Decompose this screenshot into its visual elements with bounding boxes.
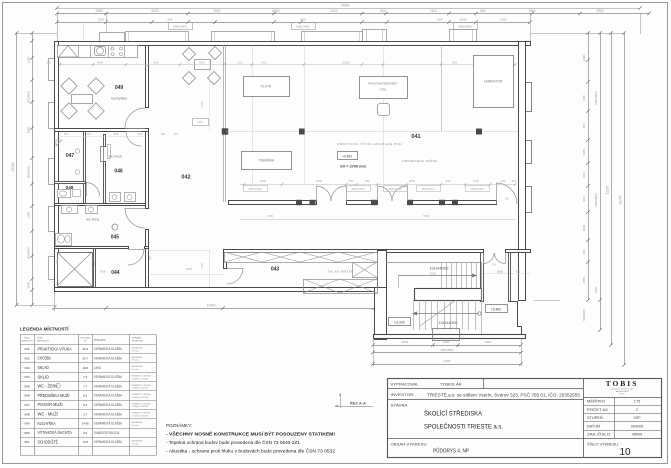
svg-text:Primalex: Primalex (132, 442, 139, 445)
svg-text:KERAMICKÝ OBKLAD: KERAMICKÝ OBKLAD (132, 393, 152, 396)
svg-text:TOBIS: TOBIS (606, 379, 639, 388)
svg-text:1400: 1400 (197, 120, 203, 124)
svg-text:1500: 1500 (98, 17, 105, 21)
svg-text:042: 042 (181, 175, 190, 181)
svg-text:049: 049 (24, 422, 29, 426)
svg-text:v.2000mm (ČSN-N): v.2000mm (ČSN-N) (132, 414, 149, 417)
svg-text:ÚPRAVA: ÚPRAVA (132, 337, 141, 340)
svg-text:09/2009: 09/2009 (631, 424, 643, 428)
svg-text:3050: 3050 (409, 179, 416, 183)
svg-text:4000: 4000 (100, 270, 107, 274)
svg-text:950: 950 (161, 132, 166, 136)
svg-text:5400: 5400 (186, 267, 193, 271)
svg-text:2950: 2950 (596, 9, 603, 13)
svg-text:600: 600 (174, 132, 179, 136)
svg-text:KERAMICKÁ DLAŽBA: KERAMICKÁ DLAŽBA (94, 439, 123, 444)
svg-text:1800(1962): 1800(1962) (470, 187, 483, 191)
svg-text:900: 900 (167, 17, 172, 21)
svg-text:900(2400): 900(2400) (296, 25, 310, 29)
svg-text:048: 048 (24, 412, 29, 416)
svg-text:m²: m² (84, 340, 87, 343)
svg-text:v.2000mm (ČSN-N): v.2000mm (ČSN-N) (132, 377, 149, 380)
svg-text:PROSKLENÁ STĚNA: PROSKLENÁ STĚNA (402, 158, 437, 163)
svg-text:900(800): 900(800) (27, 91, 31, 103)
svg-text:ÚČEL: ÚČEL (37, 337, 44, 340)
svg-text:LEGENDA MÍSTNOSTÍ: LEGENDA MÍSTNOSTÍ (20, 325, 69, 332)
svg-text:Primalex: Primalex (132, 368, 139, 371)
svg-text:PŘEDSÍŇKA MUŽI: PŘEDSÍŇKA MUŽI (38, 393, 70, 398)
svg-text:PLOTR: PLOTR (261, 85, 272, 89)
svg-text:12750: 12750 (619, 195, 623, 204)
svg-text:6000: 6000 (151, 9, 158, 13)
svg-text:63.7: 63.7 (82, 356, 88, 360)
svg-text:600: 600 (446, 179, 451, 183)
svg-text:TOBOLÁK: TOBOLÁK (440, 383, 463, 387)
svg-text:2500: 2500 (95, 9, 102, 13)
svg-text:MALBA BÍLÁ: MALBA BÍLÁ (132, 347, 144, 350)
svg-text:043: 043 (24, 366, 29, 370)
svg-text:1800(1962): 1800(1962) (248, 187, 261, 191)
svg-text:KERAMICKÁ DLAŽBA: KERAMICKÁ DLAŽBA (94, 355, 123, 360)
svg-text:MÍSTNOSTI: MÍSTNOSTI (22, 340, 33, 343)
svg-text:10.8: 10.8 (82, 366, 88, 370)
svg-text:1850: 1850 (113, 132, 119, 136)
svg-text:(3200): (3200) (342, 60, 350, 64)
svg-text:330: 330 (148, 255, 152, 260)
svg-text:2: 2 (636, 408, 638, 412)
svg-text:7.3: 7.3 (83, 375, 87, 379)
svg-text:(900): (900) (497, 270, 503, 274)
svg-text:1800(1962): 1800(1962) (388, 187, 401, 191)
svg-text:6000(900): 6000(900) (594, 193, 598, 207)
svg-text:600: 600 (380, 9, 386, 13)
svg-text:049: 049 (115, 85, 124, 91)
svg-text:SAMOSTATNÁ DOK.: SAMOSTATNÁ DOK. (94, 431, 120, 435)
svg-text:- VŠECHNY NOSNÉ KONSTRUKCE MUS: - VŠECHNY NOSNÉ KONSTRUKCE MUSÍ BÝT POSO… (166, 430, 335, 437)
svg-text:2300: 2300 (316, 179, 323, 183)
svg-text:MÍSTNOSTI: MÍSTNOSTI (37, 340, 49, 343)
svg-text:600: 600 (437, 17, 442, 21)
svg-text:v.2000mm (ČSN-N): v.2000mm (ČSN-N) (132, 387, 149, 390)
svg-text:2000: 2000 (27, 126, 31, 133)
svg-text:800: 800 (154, 60, 159, 64)
svg-text:2500: 2500 (27, 56, 31, 63)
svg-text:14.96: 14.96 (82, 422, 89, 426)
svg-text:- Akustika - ochrana proti hlu: - Akustika - ochrana proti hluku v budov… (166, 449, 336, 454)
svg-text:2430: 2430 (594, 286, 598, 293)
svg-text:TISKÁRNA: TISKÁRNA (258, 159, 275, 163)
svg-text:PISOÁR MUŽI: PISOÁR MUŽI (38, 402, 63, 407)
svg-text:14400: 14400 (207, 304, 216, 308)
svg-text:TRIESTE a.s. se sídlem Vsetín,: TRIESTE a.s. se sídlem Vsetín, Svárov 32… (427, 393, 581, 398)
svg-text:12200: 12200 (606, 185, 610, 194)
svg-text:KERAMICKÁ DLAŽBA: KERAMICKÁ DLAŽBA (94, 346, 123, 351)
svg-text:74.8: 74.8 (82, 440, 88, 444)
svg-text:24800: 24800 (341, 4, 350, 8)
svg-text:600: 600 (238, 60, 243, 64)
svg-text:ČÍSLO: ČÍSLO (24, 337, 31, 340)
svg-text:046: 046 (114, 169, 123, 175)
svg-text:600: 600 (582, 123, 586, 128)
svg-text:DSP: DSP (634, 416, 642, 420)
svg-text:KERAMICKÝ OBKLAD: KERAMICKÝ OBKLAD (132, 402, 152, 405)
svg-text:041: 041 (24, 347, 29, 351)
svg-text:500: 500 (47, 60, 52, 64)
svg-text:Primalex: Primalex (132, 424, 139, 427)
svg-text:2560: 2560 (528, 9, 535, 13)
svg-text:PODLAHA: PODLAHA (94, 339, 106, 342)
svg-text:900(800): 900(800) (27, 247, 31, 259)
svg-text:1750: 1750 (200, 262, 204, 269)
svg-text:600: 600 (453, 60, 458, 64)
svg-text:+5,460: +5,460 (491, 308, 501, 312)
svg-text:DATUM: DATUM (587, 424, 600, 428)
svg-text:047: 047 (66, 153, 75, 159)
svg-text:2500: 2500 (27, 281, 31, 288)
svg-text:OBSAH VÝKRESU: OBSAH VÝKRESU (391, 443, 427, 447)
svg-text:950: 950 (64, 132, 69, 136)
svg-text:KERAMICKÝ OBKLAD: KERAMICKÝ OBKLAD (132, 384, 152, 387)
svg-text:900(800): 900(800) (27, 166, 31, 178)
svg-text:6000: 6000 (272, 9, 279, 13)
svg-text:1800(1962): 1800(1962) (351, 187, 364, 191)
svg-text:041: 041 (411, 134, 420, 140)
svg-text:6400: 6400 (444, 359, 451, 363)
svg-text:KERAMICKÁ DLAŽBA: KERAMICKÁ DLAŽBA (94, 421, 123, 426)
svg-text:WC - MUŽI: WC - MUŽI (38, 411, 59, 416)
svg-text:2860: 2860 (485, 340, 492, 344)
svg-text:4750: 4750 (267, 214, 274, 218)
svg-text:ŘEZ A-A: ŘEZ A-A (350, 401, 366, 406)
svg-text:2630: 2630 (402, 340, 409, 344)
svg-text:600: 600 (582, 172, 586, 177)
svg-text:2160: 2160 (500, 17, 507, 21)
svg-text:KERAMICKÝ OBKLAD: KERAMICKÝ OBKLAD (132, 374, 152, 377)
svg-text:SPOLEČNOSTI TRIESTE a.s.: SPOLEČNOSTI TRIESTE a.s. (424, 422, 503, 431)
svg-text:1850: 1850 (582, 276, 586, 283)
svg-text:1:75: 1:75 (634, 400, 641, 404)
svg-text:STUPEŇ: STUPEŇ (587, 416, 603, 420)
svg-text:1750: 1750 (200, 100, 204, 107)
svg-text:12200: 12200 (11, 162, 15, 171)
svg-text:600(900): 600(900) (582, 309, 586, 321)
svg-text:MALBA BÍLÁ: MALBA BÍLÁ (132, 356, 144, 359)
svg-text:2930: 2930 (213, 9, 220, 13)
svg-text:MALBA BÍLÁ: MALBA BÍLÁ (132, 440, 144, 443)
svg-text:wc muži: wc muži (109, 155, 122, 159)
svg-text:3400: 3400 (199, 60, 206, 64)
svg-text:2800: 2800 (260, 179, 267, 183)
svg-text:1800(1962): 1800(1962) (421, 187, 434, 191)
svg-text:2000: 2000 (582, 54, 586, 61)
svg-text:39/009: 39/009 (632, 432, 642, 436)
svg-text:8.2: 8.2 (83, 394, 87, 398)
svg-text:300: 300 (512, 179, 517, 183)
svg-text:2410: 2410 (330, 9, 337, 13)
svg-text:POZNÁMKY:: POZNÁMKY: (166, 422, 192, 429)
svg-text:600: 600 (138, 132, 143, 136)
svg-text:PŮDORYS 4. NP: PŮDORYS 4. NP (433, 448, 469, 455)
svg-text:KERAMICKÁ DLAŽBA: KERAMICKÁ DLAŽBA (94, 383, 123, 388)
svg-text:600: 600 (87, 132, 92, 136)
svg-text:900(2400): 900(2400) (458, 25, 472, 29)
svg-text:kuchyňka: kuchyňka (111, 97, 126, 101)
svg-text:7600: 7600 (423, 214, 430, 218)
svg-text:900: 900 (300, 17, 305, 21)
svg-text:051: 051 (24, 440, 29, 444)
svg-text:8,5: 8,5 (505, 197, 509, 201)
svg-text:KERAMICKÁ DLAŽBA: KERAMICKÁ DLAŽBA (94, 411, 123, 416)
svg-text:7410: 7410 (429, 9, 436, 13)
svg-text:600: 600 (365, 179, 370, 183)
svg-text:POČET A4: POČET A4 (587, 407, 608, 412)
svg-text:SCHODIŠTĚ: SCHODIŠTĚ (38, 439, 59, 444)
svg-text:- Tepelná ochrana budov bude p: - Tepelná ochrana budov bude provedena d… (166, 439, 301, 445)
svg-text:LINO: LINO (94, 366, 101, 370)
svg-text:045: 045 (111, 235, 120, 241)
svg-text:4600(850): 4600(850) (440, 348, 454, 352)
svg-text:1750: 1750 (473, 179, 480, 183)
svg-text:VYPRACOVAL: VYPRACOVAL (391, 383, 419, 387)
svg-text:MALBA BÍLÁ: MALBA BÍLÁ (132, 421, 144, 424)
svg-text:KERAMICKÁ DLAŽBA: KERAMICKÁ DLAŽBA (94, 402, 123, 407)
svg-text:KERAMICKÁ DLAŽBA: KERAMICKÁ DLAŽBA (94, 393, 123, 398)
svg-text:CHODBA: CHODBA (38, 356, 52, 361)
svg-text:10: 10 (619, 447, 631, 458)
svg-text:ZAK.ČÍSLO: ZAK.ČÍSLO (587, 431, 611, 436)
svg-text:043: 043 (271, 267, 280, 273)
svg-text:400: 400 (55, 259, 59, 264)
svg-text:SKLAD: SKLAD (38, 365, 49, 370)
svg-text:PRAKTICKÁ VÝUKA APLIKACE POLÍ: PRAKTICKÁ VÝUKA APLIKACE POLÍ (337, 142, 402, 146)
svg-text:LAMINÁTOR: LAMINÁTOR (484, 80, 503, 84)
svg-text:KUCHYŇKA: KUCHYŇKA (38, 421, 56, 426)
svg-text:900: 900 (582, 196, 586, 201)
svg-text:WC - ŽENY: WC - ŽENY (38, 384, 59, 389)
svg-text:6000: 6000 (460, 17, 467, 21)
svg-text:ČÍSLO VÝKRESU: ČÍSLO VÝKRESU (587, 442, 618, 447)
svg-text:v.2000mm (ČSN-N): v.2000mm (ČSN-N) (132, 396, 149, 399)
svg-text:KERAMICKÁ DLAŽBA: KERAMICKÁ DLAŽBA (94, 374, 123, 379)
svg-text:MĚŘÍTKO: MĚŘÍTKO (587, 399, 605, 404)
svg-text:PRAKTICKÁ VÝUKA: PRAKTICKÁ VÝUKA (38, 346, 72, 351)
svg-text:600: 600 (582, 249, 586, 254)
svg-text:STAVBA: STAVBA (391, 404, 409, 408)
svg-text:MALBA BÍLÁ: MALBA BÍLÁ (132, 365, 144, 368)
svg-text:044: 044 (24, 375, 29, 379)
svg-text:INVESTOR: INVESTOR (391, 393, 414, 397)
svg-text:Primalex: Primalex (132, 349, 139, 352)
svg-text:044: 044 (111, 270, 120, 276)
svg-text:1950: 1950 (582, 148, 586, 155)
svg-text:VÝTAHOVÁ ŠACHTA: VÝTAHOVÁ ŠACHTA (38, 430, 72, 435)
svg-text:+11,060: +11,060 (393, 321, 405, 325)
svg-text:4000: 4000 (97, 60, 104, 64)
svg-text:10x144/300: 10x144/300 (439, 321, 458, 325)
svg-text:PLOCHA: PLOCHA (81, 337, 91, 340)
svg-text:10x144/300: 10x144/300 (430, 267, 449, 271)
svg-text:900(2400): 900(2400) (173, 25, 187, 29)
svg-text:047: 047 (24, 403, 29, 407)
svg-text:5210: 5210 (430, 272, 437, 276)
svg-text:400: 400 (501, 179, 506, 183)
svg-text:046: 046 (24, 394, 29, 398)
svg-text:042: 042 (24, 356, 29, 360)
svg-text:KERAMICKÝ OBKLAD: KERAMICKÝ OBKLAD (132, 412, 152, 415)
svg-text:3300: 3300 (27, 211, 31, 218)
svg-text:600: 600 (480, 9, 486, 13)
svg-text:Vsetín: Vsetín (619, 393, 624, 396)
svg-text:v.2000mm (ČSN-N): v.2000mm (ČSN-N) (132, 405, 149, 408)
svg-text:wc ženy: wc ženy (86, 218, 99, 222)
svg-text:3.5: 3.5 (83, 431, 87, 435)
svg-text:7.7: 7.7 (83, 384, 87, 388)
svg-text:800: 800 (262, 60, 267, 64)
svg-text:8.4: 8.4 (83, 403, 87, 407)
svg-text:+9,460: +9,460 (342, 155, 352, 159)
svg-text:5,5: 5,5 (492, 263, 496, 267)
svg-text:94.3: 94.3 (82, 347, 88, 351)
svg-text:600: 600 (516, 270, 521, 274)
svg-text:SV = 2760 mm: SV = 2760 mm (340, 165, 366, 169)
svg-text:6000(900): 6000(900) (594, 91, 598, 105)
svg-text:Primalex: Primalex (132, 359, 139, 362)
svg-text:1.7: 1.7 (83, 412, 87, 416)
svg-text:900: 900 (582, 95, 586, 100)
svg-text:045: 045 (24, 384, 29, 388)
svg-text:ÚKLID: ÚKLID (38, 374, 49, 379)
svg-text:(750: (750 (348, 179, 354, 183)
svg-text:2000: 2000 (582, 224, 586, 231)
svg-text:050: 050 (24, 431, 29, 435)
svg-text:ŠKOLÍCÍ STŘEDISKA: ŠKOLÍCÍ STŘEDISKA (424, 409, 483, 418)
svg-text:POVRCHU: POVRCHU (132, 341, 143, 343)
